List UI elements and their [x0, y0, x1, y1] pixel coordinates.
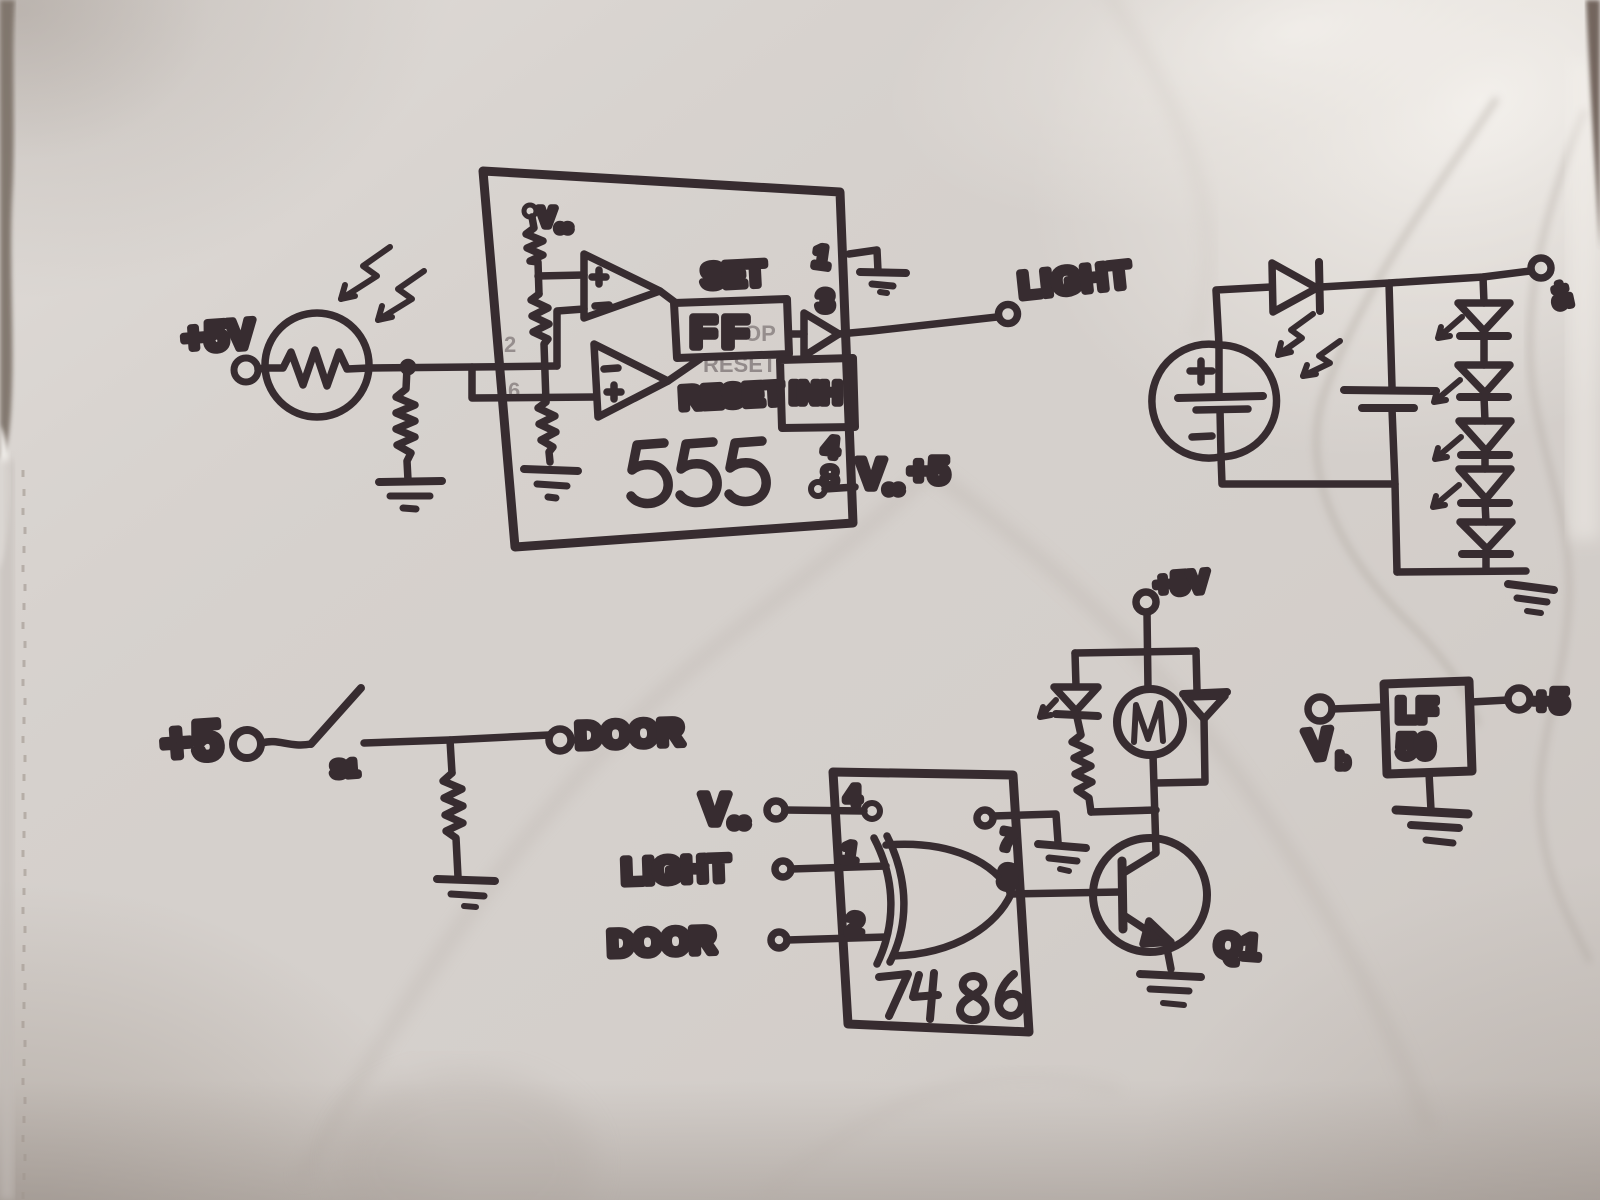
wire FF to buffer — [789, 330, 804, 338]
wire capacitor to bottom rail — [1392, 409, 1397, 572]
svg-text:b: b — [1337, 751, 1349, 773]
photoresistor R1 — [265, 313, 369, 417]
terminal LIGHT output — [999, 305, 1018, 324]
resistor pulldown (DOOR) — [443, 773, 463, 877]
wire comparator B out to FF — [668, 359, 700, 381]
light arrows into solar cell — [1278, 314, 1340, 376]
wire terminal to switch — [262, 742, 311, 745]
pin 4 terminal — [864, 803, 880, 819]
resistor below D7 — [1072, 717, 1092, 812]
wire DOOR to pin 2 — [787, 937, 886, 940]
transistor Q1 — [1093, 838, 1207, 952]
wire pin3 output to LIGHT terminal — [839, 317, 997, 334]
ground (pin 7) — [1038, 844, 1086, 871]
wire LF50 to ground — [1429, 773, 1431, 810]
svg-text:+5V: +5V — [1153, 565, 1209, 602]
dark sliver beyond page corner top-right (decorative) — [1586, 0, 1600, 250]
wire top rail to capacitor — [1389, 283, 1392, 387]
svg-text:+5: +5 — [908, 450, 949, 491]
Vcc input label — [700, 785, 749, 834]
ground (LF50) — [1396, 810, 1468, 843]
svg-text:S1: S1 — [331, 755, 360, 782]
svg-text:V: V — [1302, 719, 1335, 769]
svg-text:3: 3 — [817, 285, 834, 318]
svg-text:+5V: +5V — [181, 312, 256, 361]
regulator LF50 box — [1384, 681, 1472, 774]
wire D5-D6 — [1485, 503, 1486, 522]
wire LIGHT to pin 1 — [791, 866, 886, 869]
flyback top rail — [1075, 651, 1196, 653]
emission arrows D4 — [1435, 437, 1461, 459]
svg-text:+5: +5 — [1532, 683, 1568, 719]
XOR gate U1 — [874, 836, 1011, 964]
svg-text:50: 50 — [1397, 728, 1435, 766]
wire D8 to collector node — [1156, 719, 1205, 783]
divider resistor Ra — [526, 217, 543, 294]
diode D1 — [1272, 262, 1320, 312]
wire motor to Q1 collector — [1153, 755, 1156, 852]
wire Vcc to pin 4 — [785, 810, 864, 811]
svg-text:SET: SET — [700, 255, 766, 296]
svg-text:OP: OP — [744, 321, 776, 346]
wire pin8 to Vcc label — [825, 487, 855, 489]
ground (input pulldown) — [379, 481, 442, 509]
7486 label — [879, 973, 1022, 1020]
terminal DOOR — [549, 729, 571, 751]
page curl shadow curves (decorative) — [1316, 98, 1497, 726]
555 label — [631, 441, 766, 503]
svg-text:+5: +5 — [159, 710, 225, 774]
emission arrow D7 — [1040, 700, 1056, 717]
wire terminal to photoresistor — [258, 368, 266, 369]
wire Q1 emitter to ground — [1166, 943, 1171, 969]
capacitor C1 — [1344, 390, 1436, 408]
terminal +5V motor — [1136, 592, 1156, 612]
LED D6 — [1460, 522, 1512, 554]
ground (LED chain) — [1508, 584, 1554, 613]
Vcc node inside 555 — [524, 202, 572, 235]
resistor pulldown at input — [396, 368, 415, 480]
svg-text:Q1: Q1 — [1213, 926, 1261, 967]
terminal +5V input — [234, 358, 258, 382]
wire pin1 to ground — [849, 250, 878, 271]
LED D7 (left flyback) — [1054, 687, 1098, 716]
wire LF50 to +5 terminal — [1471, 700, 1508, 702]
wire resistor to collector node — [1091, 810, 1156, 812]
wire D4-D5 — [1481, 455, 1489, 469]
wire +5V down to motor — [1147, 612, 1148, 689]
light arrows into photoresistor — [341, 247, 424, 320]
switch S1 — [311, 688, 361, 744]
svg-text:cc: cc — [729, 812, 749, 832]
svg-text:RESET: RESET — [703, 352, 777, 377]
wire photoresistor to 555 input — [369, 366, 557, 368]
flip-flop FF box — [674, 299, 789, 358]
wire comparator A out to FF — [660, 291, 676, 303]
emission arrows D3 — [1434, 380, 1460, 402]
wire rail to LED D7 — [1075, 653, 1076, 686]
wire D6 to bottom rail — [1482, 554, 1490, 571]
svg-text:LIGHT: LIGHT — [621, 847, 730, 892]
emission arrows D5 — [1433, 485, 1459, 507]
terminal DOOR (7486) — [771, 932, 787, 948]
svg-text:1: 1 — [811, 240, 832, 275]
svg-text:INH: INH — [790, 377, 842, 410]
junction node — [404, 363, 413, 372]
terminal pin 8 — [811, 482, 825, 496]
ground (Q1 emitter) — [1140, 974, 1201, 1005]
diode D8 (right flyback) — [1183, 692, 1227, 719]
555 IC box — [483, 171, 853, 547]
svg-text:V: V — [700, 785, 730, 834]
wire diode to +5 terminal (top rail) — [1321, 271, 1530, 287]
svg-text:4: 4 — [821, 431, 840, 464]
svg-text:V: V — [857, 450, 885, 497]
terminal +5 (LF50 out) — [1508, 688, 1530, 710]
LED D5 — [1459, 469, 1511, 503]
ground (DOOR pulldown) — [437, 879, 495, 907]
divider resistor Rb — [531, 294, 549, 402]
comparator B (trigger) — [594, 344, 668, 417]
divider resistor Rc — [538, 402, 556, 462]
wire XOR output to Q1 base — [1010, 892, 1120, 894]
svg-text:cc: cc — [556, 219, 572, 235]
terminal Vb (LF50 input) — [1308, 697, 1332, 721]
LED D3 — [1458, 365, 1510, 397]
ground (pin 1) — [860, 272, 906, 293]
wire D2-D3 — [1480, 336, 1488, 365]
svg-text:cc: cc — [884, 479, 903, 498]
terminal Vcc (7486) — [767, 801, 785, 819]
terminal +5 top right — [1531, 258, 1551, 278]
terminal +5 switch — [233, 730, 261, 758]
wire input jog down — [472, 367, 596, 398]
svg-text:2: 2 — [846, 908, 865, 942]
svg-text:+5: +5 — [1546, 280, 1577, 311]
svg-text:LF: LF — [1396, 692, 1438, 730]
wire junction to resistor — [450, 740, 452, 773]
output buffer triangle — [804, 313, 839, 356]
LED D4 — [1459, 421, 1511, 455]
LED D2 — [1458, 303, 1510, 336]
bottom rail to LED chain — [1397, 571, 1526, 572]
wire rail to diode D8 — [1196, 651, 1197, 691]
svg-text:DOOR: DOOR — [575, 711, 684, 756]
wire D3-D4 — [1484, 397, 1485, 421]
motor M1 — [1117, 689, 1183, 755]
wire divider tap to comparator A plus — [538, 275, 584, 276]
svg-text:4: 4 — [845, 780, 861, 811]
Vb node label — [1302, 719, 1349, 773]
INH box — [780, 358, 855, 428]
solar cell PV1 — [1152, 344, 1277, 458]
svg-text:2: 2 — [504, 332, 516, 357]
svg-text:RESET: RESET — [679, 376, 784, 416]
notebook left edge (decorative) — [0, 0, 15, 460]
wire top rail to LED chain — [1483, 277, 1484, 303]
emission arrows D2 — [1438, 317, 1462, 338]
wire solar cell bottom rail — [1221, 456, 1395, 484]
ground (divider) — [524, 469, 578, 498]
svg-text:DOOR: DOOR — [607, 919, 716, 964]
Vcc +5 label at pin 8 — [857, 450, 949, 498]
7486 IC box — [833, 772, 1029, 1032]
terminal LIGHT (7486) — [775, 861, 791, 877]
svg-text:LIGHT: LIGHT — [1017, 253, 1134, 306]
comparator A (threshold) — [584, 254, 660, 318]
pin 7 terminal — [977, 810, 993, 826]
wire pin 7 to ground — [993, 814, 1058, 842]
wire Vb to LF50 — [1332, 707, 1384, 709]
wire switch to DOOR terminal — [364, 735, 549, 743]
wire input jog to comparator A minus — [557, 309, 584, 366]
svg-text:V: V — [538, 202, 556, 232]
wire solar cell top to diode — [1216, 287, 1271, 345]
